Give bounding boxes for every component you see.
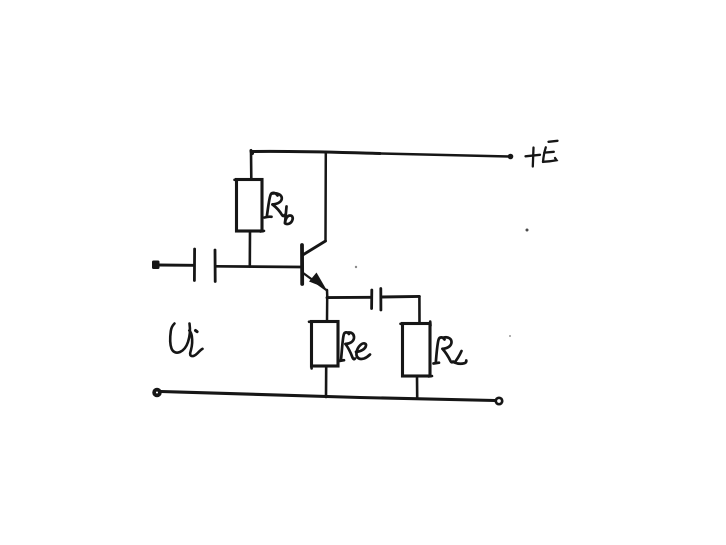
wire Rb bottom (Rb to base node) bbox=[249, 231, 252, 267]
wire collector to rail bbox=[324, 152, 327, 241]
node input terminal bbox=[152, 261, 160, 270]
speckle bbox=[509, 335, 511, 337]
label Ui bbox=[170, 324, 202, 357]
wire Re bottom to ground rail bbox=[325, 366, 328, 397]
label Rb bbox=[265, 193, 293, 224]
wire RL bottom to ground rail bbox=[416, 376, 419, 398]
wire emitter stub down bbox=[326, 290, 329, 298]
speckle bbox=[355, 266, 357, 268]
speckle bbox=[526, 229, 529, 232]
node +E supply label bbox=[526, 141, 558, 167]
wire C2 to RL corner bbox=[382, 295, 420, 299]
transistor Q1 base bar bbox=[300, 245, 304, 284]
transistor Q1 collector diagonal bbox=[304, 241, 326, 255]
resistor Re bbox=[312, 322, 339, 367]
resistor RL bbox=[403, 324, 431, 377]
capacitor C2 left plate bbox=[370, 290, 373, 309]
capacitor C1 right plate bbox=[214, 250, 217, 282]
node output ground terminal bbox=[496, 398, 502, 404]
node input ground terminal bbox=[154, 390, 160, 396]
wire bottom ground rail bbox=[161, 392, 495, 401]
capacitor C1 left plate bbox=[193, 249, 196, 281]
resistor Rb bbox=[237, 180, 263, 232]
node rail end dot bbox=[508, 154, 514, 160]
wire input to C1 bbox=[158, 264, 193, 267]
label RL bbox=[434, 337, 467, 363]
label Re bbox=[339, 332, 370, 361]
wire emitter node to C2 bbox=[327, 296, 371, 299]
wire C1 to base bbox=[216, 265, 301, 268]
wire emitter node down to Re bbox=[326, 298, 329, 322]
wire Rb top (rail to Rb) bbox=[250, 152, 253, 180]
wire top supply rail bbox=[251, 151, 380, 154]
transistor Q1 emitter with arrow bbox=[304, 274, 327, 291]
capacitor C2 right plate bbox=[379, 289, 382, 311]
